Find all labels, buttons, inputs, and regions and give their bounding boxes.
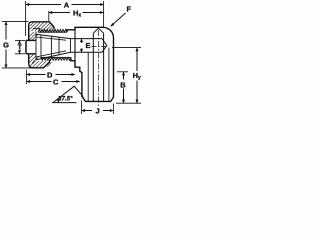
svg-text:B: B [120, 81, 126, 90]
svg-text:Hy: Hy [133, 71, 141, 81]
svg-text:F: F [127, 5, 132, 14]
svg-text:37.5°: 37.5° [58, 95, 73, 102]
svg-text:C: C [53, 78, 59, 87]
svg-text:A: A [64, 0, 70, 9]
svg-text:T: T [18, 44, 23, 51]
svg-text:Hx: Hx [73, 9, 81, 19]
svg-text:G: G [3, 40, 9, 49]
svg-text:E: E [86, 41, 91, 50]
svg-text:J: J [96, 107, 100, 116]
